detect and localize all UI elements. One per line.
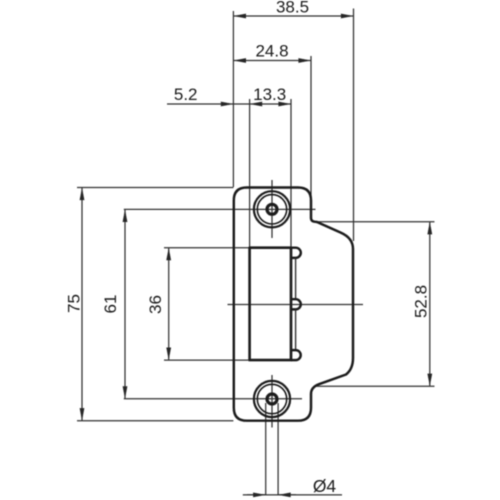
dimension line 24.8 bbox=[233, 60, 311, 62]
extension line right 24.8 bbox=[310, 56, 312, 196]
extension line 75 top bbox=[77, 187, 233, 189]
extension line right 38.5 bbox=[353, 9, 355, 242]
bottom screw hole bore bbox=[267, 394, 277, 404]
centerline top hole vertical bbox=[271, 180, 273, 238]
lip tab bottom bbox=[291, 350, 301, 360]
dimension line 75 bbox=[81, 188, 83, 421]
top screw hole bore bbox=[267, 204, 277, 214]
svg-text:24.8: 24.8 bbox=[255, 42, 288, 61]
extension line 52.8 bottom bbox=[315, 385, 435, 387]
extension line 36 top bbox=[164, 247, 250, 249]
extension line 13.3 right bbox=[290, 99, 292, 248]
dimension line 36 bbox=[168, 248, 170, 360]
svg-text:Ø4: Ø4 bbox=[313, 476, 337, 496]
svg-text:38.5: 38.5 bbox=[276, 0, 309, 17]
svg-text:75: 75 bbox=[65, 294, 84, 313]
centerline top hole horizontal bbox=[124, 208, 316, 210]
dimension line 52.8 bbox=[429, 222, 431, 386]
extension line 75 bottom bbox=[77, 420, 233, 422]
lip connector lower bbox=[295, 309, 297, 350]
extension line 52.8 top bbox=[316, 221, 435, 223]
dimension line diameter 4 bbox=[243, 494, 342, 496]
dimension line 13.3 bbox=[250, 103, 291, 105]
lip tab middle bbox=[291, 299, 301, 309]
svg-text:5.2: 5.2 bbox=[174, 85, 198, 104]
extension line 36 bottom bbox=[164, 359, 250, 361]
extension line left edge (38.5/24.8) bbox=[232, 11, 234, 187]
svg-text:36: 36 bbox=[146, 295, 165, 314]
dimension line 38.5 bbox=[233, 15, 353, 17]
svg-text:52.8: 52.8 bbox=[412, 285, 431, 318]
extension line 13.3 left bbox=[249, 99, 251, 248]
hole diameter line left bbox=[265, 403, 267, 495]
top screw hole outer circle bbox=[254, 191, 290, 227]
dimension line 61 bbox=[124, 209, 126, 398]
bottom screw hole outer circle bbox=[254, 381, 290, 417]
centerline bottom hole vertical bbox=[271, 375, 273, 428]
centerline middle horizontal bbox=[228, 304, 364, 306]
centerline bottom hole horizontal bbox=[124, 398, 302, 400]
svg-text:61: 61 bbox=[101, 295, 120, 314]
svg-text:13.3: 13.3 bbox=[253, 85, 286, 104]
leader 5.2 bbox=[167, 103, 233, 105]
top screw hole countersink circle bbox=[257, 195, 286, 224]
leader 5.2 continuation bbox=[233, 103, 249, 105]
lip tab top bbox=[291, 248, 301, 258]
bottom screw hole countersink circle bbox=[257, 384, 286, 413]
arrow diameter left bbox=[247, 494, 266, 496]
lip connector upper bbox=[295, 258, 297, 299]
arrow diameter right bbox=[278, 494, 296, 496]
latch box cutout rectangle bbox=[250, 248, 291, 360]
hole diameter line right bbox=[277, 403, 279, 495]
plate outline bbox=[234, 188, 353, 421]
